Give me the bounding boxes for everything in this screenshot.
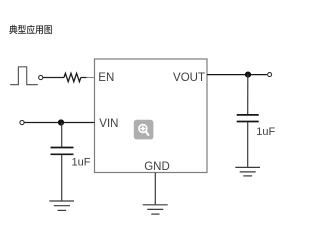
zoom overlay icon xyxy=(134,120,154,140)
title 典型应用图 xyxy=(9,25,52,34)
IC U1 body xyxy=(95,59,208,173)
wire: C1 to ground xyxy=(61,155,63,201)
svg-text:1uF: 1uF xyxy=(256,126,275,138)
terminal circle (VIN input) xyxy=(20,120,24,124)
svg-text:1uF: 1uF xyxy=(72,156,91,168)
terminal circle (EN input) xyxy=(39,75,43,79)
svg-text:VOUT: VOUT xyxy=(173,72,205,84)
resistor R1 xyxy=(64,73,81,81)
wire: GND pin to ground xyxy=(154,173,156,205)
wire: C2 to ground xyxy=(247,122,249,167)
junction node (VIN) xyxy=(58,119,64,125)
ground (GND pin) xyxy=(143,205,168,214)
wire: VIN terminal to VIN pin xyxy=(24,122,94,124)
pulse source waveform xyxy=(10,67,38,85)
wire: VOUT pin to output node xyxy=(207,74,267,76)
terminal circle (VOUT output) xyxy=(268,73,272,77)
svg-text:VIN: VIN xyxy=(99,118,118,130)
ground (C1) xyxy=(49,201,74,210)
svg-text:EN: EN xyxy=(98,72,114,84)
svg-text:GND: GND xyxy=(144,161,170,173)
wire: output node down to C2 xyxy=(247,75,249,115)
wire: EN terminal to resistor xyxy=(43,77,64,79)
capacitor C2 plates xyxy=(237,114,259,116)
junction node (VOUT) xyxy=(245,72,251,78)
wire: VIN node down to C1 xyxy=(61,123,63,147)
wire: resistor to EN pin xyxy=(81,77,87,79)
capacitor C1 plates xyxy=(51,147,74,149)
ground (C2) xyxy=(235,167,260,176)
